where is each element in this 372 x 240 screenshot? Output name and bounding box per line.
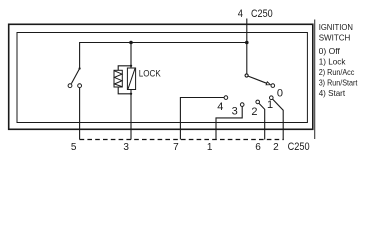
- svg-text:1: 1: [207, 142, 213, 153]
- svg-text:5: 5: [71, 142, 77, 153]
- node relay junction: [129, 41, 133, 45]
- ignition switch legend: [319, 22, 358, 98]
- svg-text:3: 3: [123, 142, 129, 153]
- svg-text:0: 0: [277, 87, 283, 99]
- switch S1 hinge: [79, 67, 81, 69]
- wire contact4 to pin7: [180, 98, 224, 140]
- connector C250 dashed boundary: [80, 139, 284, 141]
- inner component box: [17, 33, 307, 123]
- svg-text:1: 1: [267, 99, 273, 111]
- relay coil zigzag: [114, 71, 122, 87]
- svg-text:C250: C250: [251, 8, 273, 20]
- svg-text:3) Run/Start: 3) Run/Start: [319, 77, 358, 87]
- svg-text:C250: C250: [288, 141, 310, 153]
- wire relay feed: [130, 43, 132, 69]
- outer component box: [9, 24, 313, 129]
- svg-text:3: 3: [232, 106, 238, 118]
- wire contact3 to pin1: [216, 107, 242, 140]
- wire pin4 feed: [246, 19, 248, 76]
- svg-text:7: 7: [173, 142, 179, 153]
- wire left switch feed: [79, 42, 81, 69]
- contact 4: [224, 96, 228, 100]
- switch S1 contact right: [78, 84, 82, 88]
- relay coil box: [114, 70, 122, 87]
- wire contact2 to pin6: [259, 103, 265, 139]
- wire coil bottom stub: [118, 87, 131, 94]
- node bus-feed junction: [245, 41, 249, 45]
- relay contact box: [127, 68, 135, 90]
- switch S1 contact left: [68, 84, 72, 88]
- svg-text:6: 6: [255, 142, 261, 153]
- node coil top junction: [130, 65, 132, 67]
- svg-text:4: 4: [217, 101, 223, 113]
- contact 1: [270, 96, 274, 100]
- svg-text:2) Run/Acc: 2) Run/Acc: [319, 67, 355, 77]
- wiper arrowhead: [266, 82, 270, 85]
- svg-text:4: 4: [238, 8, 243, 20]
- svg-text:IGNITION: IGNITION: [319, 22, 353, 32]
- node coil bottom junction: [130, 93, 132, 95]
- svg-text:LOCK: LOCK: [139, 68, 161, 79]
- svg-text:SWITCH: SWITCH: [319, 32, 351, 42]
- wire pin 3: [130, 90, 132, 140]
- ignition switch wiper blade: [248, 76, 267, 83]
- contact 2: [256, 100, 260, 104]
- svg-text:2: 2: [251, 106, 257, 118]
- wire coil top stub: [118, 66, 131, 71]
- contact 3: [240, 103, 244, 107]
- switch S1 blade: [71, 69, 79, 84]
- contact 0: [271, 84, 275, 88]
- wire contact1 to pin2: [273, 99, 284, 139]
- svg-text:4) Start: 4) Start: [319, 88, 346, 98]
- right panel rule: [314, 20, 316, 140]
- svg-text:2: 2: [273, 142, 279, 153]
- svg-text:0) Off: 0) Off: [319, 46, 341, 56]
- wire pin 5: [79, 88, 81, 140]
- relay contact diagonal: [128, 69, 135, 89]
- wire supply bus: [80, 42, 247, 44]
- svg-text:1) Lock: 1) Lock: [319, 56, 346, 66]
- ignition switch wiper hinge: [245, 74, 248, 77]
